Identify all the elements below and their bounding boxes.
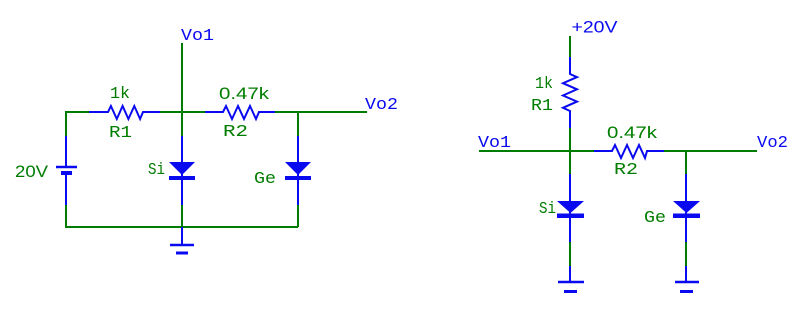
svg-text:0.47k: 0.47k (607, 123, 658, 142)
svg-text:+20V: +20V (572, 18, 619, 37)
svg-text:20V: 20V (15, 162, 49, 181)
resistor R2 (right, horizontal 0.47k) (594, 145, 665, 158)
svg-text:R2: R2 (223, 123, 248, 142)
wire main horizontal right segment (right circuit) (664, 150, 757, 152)
wire Si diode bottom (181, 205, 183, 227)
wire below R1 (right) (569, 128, 571, 152)
wire Ge branch bottom (right) (685, 242, 687, 266)
wire right vertical top (to Ge) (297, 112, 299, 136)
resistor R1 (left, horizontal 1k) (89, 106, 160, 119)
svg-text:R1: R1 (531, 97, 553, 116)
svg-text:Si: Si (148, 161, 165, 180)
diode D2 Ge (left) (285, 136, 311, 205)
resistor R1 (right, vertical 1k) (563, 57, 577, 128)
ground (left circuit) (170, 227, 194, 253)
wire Si branch bottom (right) (569, 242, 571, 266)
svg-text:Vo2: Vo2 (365, 96, 398, 115)
ground below Si (right) (558, 266, 584, 292)
diode D1 Si (right) (557, 174, 584, 242)
svg-text:Si: Si (539, 200, 556, 219)
svg-text:R1: R1 (109, 124, 132, 143)
wire Si branch top (right) (569, 151, 571, 174)
svg-text:1k: 1k (110, 85, 130, 104)
svg-text:0.47k: 0.47k (219, 84, 270, 103)
svg-text:Ge: Ge (254, 170, 276, 189)
wire Ge diode bottom (297, 205, 299, 227)
wire Vo1 vertical stub (left) (181, 43, 183, 136)
wire bottom rail (66, 226, 298, 228)
svg-text:Ge: Ge (644, 209, 666, 228)
ground below Ge (right) (675, 266, 699, 292)
battery V1 20V (56, 136, 77, 205)
svg-text:R2: R2 (614, 161, 638, 180)
svg-text:1k: 1k (535, 75, 553, 94)
svg-text:Vo1: Vo1 (181, 27, 214, 46)
diode D2 Ge (right) (673, 174, 700, 242)
wire +20V vertical stub (569, 36, 571, 58)
wire top-left horizontal (65, 111, 90, 113)
diode D1 Si (left) (169, 136, 195, 205)
wire Ge branch top (right) (685, 151, 687, 174)
resistor R2 (left, horizontal 0.47k) (205, 106, 275, 119)
wire between R1 and node A (159, 111, 206, 113)
wire left vertical (corner to battery) (65, 111, 67, 136)
wire battery bottom (65, 205, 67, 228)
svg-text:Vo2: Vo2 (757, 134, 788, 153)
wire from R2 to Vo2 (274, 111, 367, 113)
wire main horizontal left segment (right circuit) (479, 150, 595, 152)
